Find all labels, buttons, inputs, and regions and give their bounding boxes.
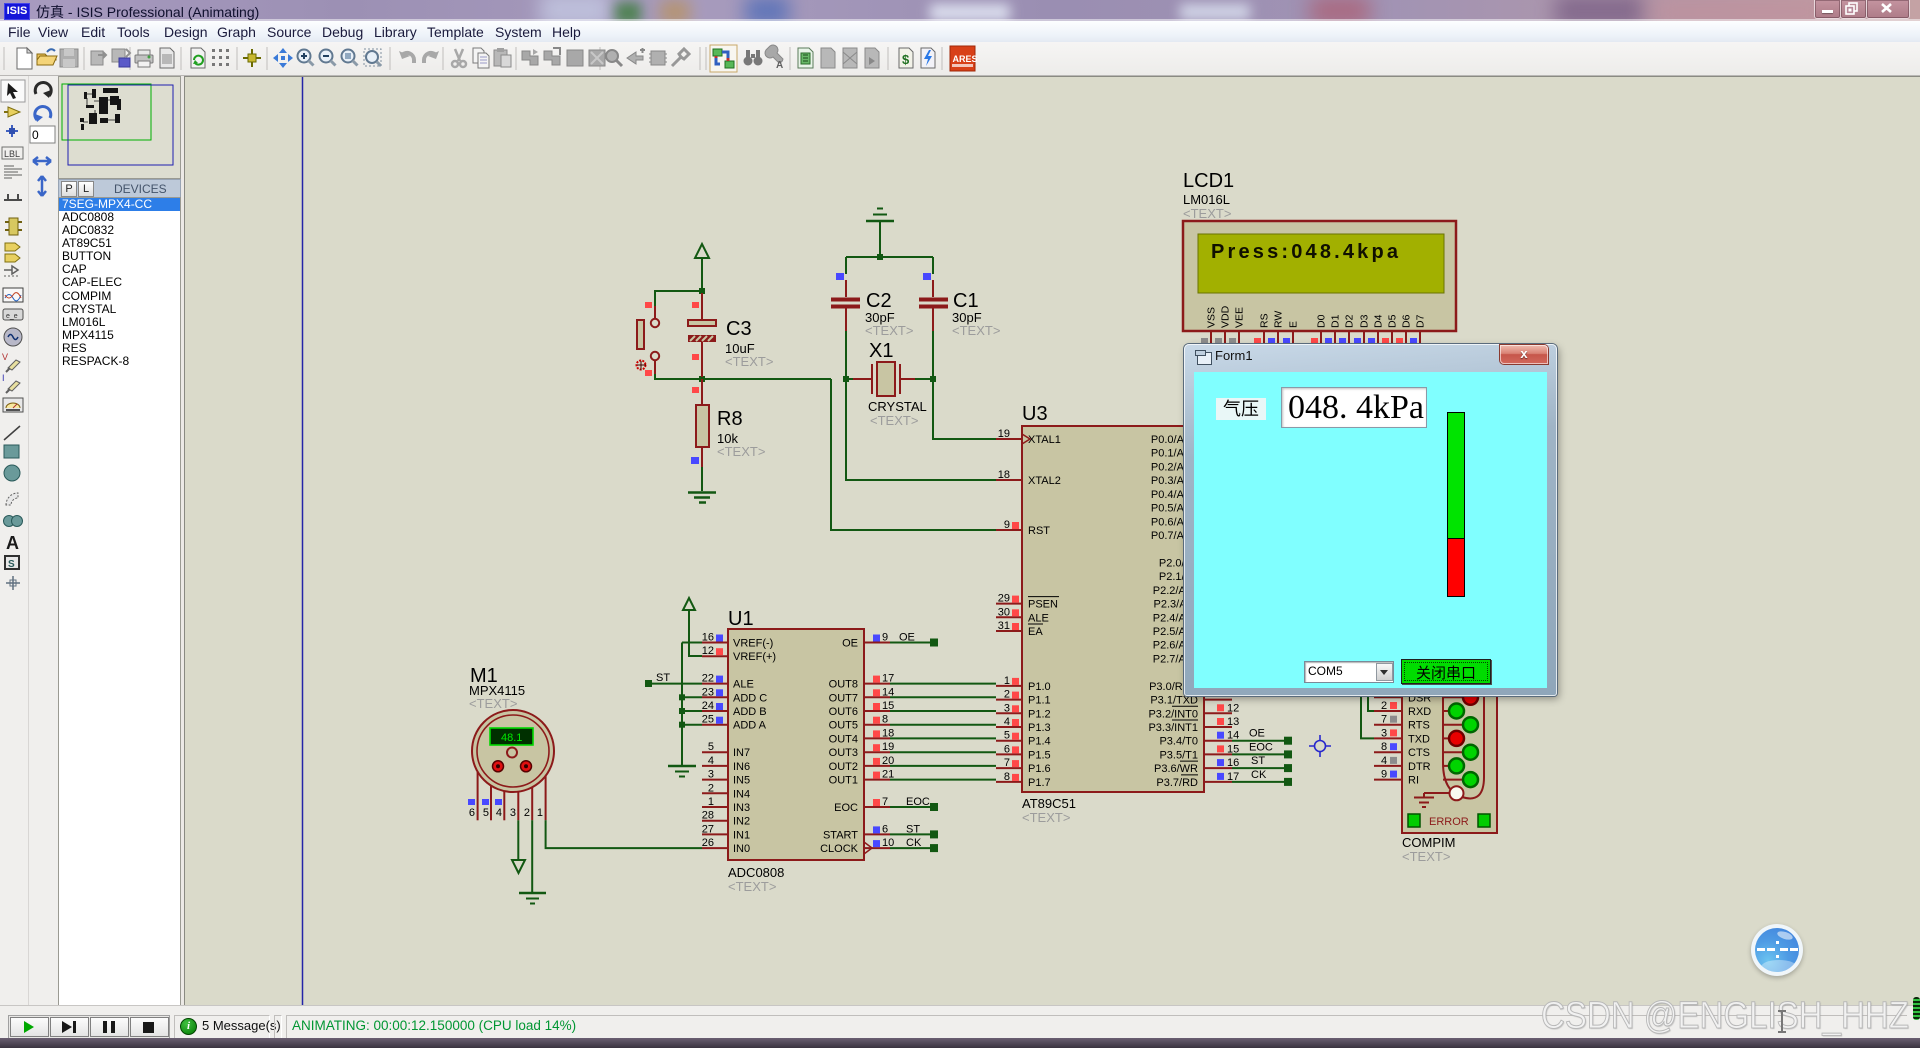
svg-text:TXD: TXD [1408, 733, 1430, 745]
zoom out [320, 50, 336, 66]
wire crystal top rail [846, 256, 933, 258]
node junction ADD A [679, 722, 685, 728]
svg-text:4: 4 [708, 755, 714, 767]
svg-text:A: A [776, 60, 783, 71]
wire ADD C [682, 696, 702, 698]
node junction top rail [877, 254, 883, 260]
script lines [4, 166, 22, 178]
wire M1 pin2 to ground [531, 820, 533, 892]
wire XTAL1 net [933, 379, 996, 439]
svg-text:START: START [823, 829, 858, 841]
wire junction to button [655, 291, 702, 306]
svg-text:9: 9 [1004, 519, 1010, 531]
svg-text:12: 12 [1227, 702, 1239, 714]
svg-text:1: 1 [537, 807, 543, 819]
op IC U1 ADC0808 [702, 608, 895, 894]
wire COMPIM RXD net [1368, 689, 1374, 711]
svg-text:V: V [2, 352, 8, 362]
left stubs [702, 643, 728, 849]
svg-text:ST: ST [1251, 755, 1265, 767]
left stubs [996, 439, 1022, 782]
svg-text:E: E [1288, 321, 1300, 328]
wire button bottom to C3 bottom junction [655, 374, 831, 379]
circle [4, 465, 20, 481]
gauge bar [1447, 412, 1465, 597]
svg-text:IN2: IN2 [733, 816, 750, 828]
svg-text:LBL: LBL [4, 149, 20, 159]
export [112, 49, 130, 67]
svg-text:2: 2 [708, 782, 714, 794]
terminal arrow (down) [512, 860, 525, 873]
form icon [1197, 352, 1212, 365]
copy [473, 48, 489, 68]
svg-text:<TEXT>: <TEXT> [728, 879, 776, 894]
svg-text:IN3: IN3 [733, 802, 750, 814]
svg-text:27: 27 [702, 823, 714, 835]
LED stubs [1443, 697, 1462, 779]
svg-text:0: 0 [32, 128, 39, 142]
svg-text:LM016L: LM016L [1183, 192, 1230, 207]
svg-text:P3.2/INT0: P3.2/INT0 [1148, 708, 1198, 720]
svg-text:PSEN: PSEN [1028, 599, 1058, 611]
I-beam cursor [1781, 1011, 1783, 1032]
svg-text:<TEXT>: <TEXT> [1183, 206, 1231, 221]
sim buttons [8, 1015, 170, 1039]
svg-text:22: 22 [702, 673, 714, 685]
svg-text:P3.7/RD: P3.7/RD [1156, 777, 1198, 789]
tape [3, 309, 23, 320]
svg-text:IN4: IN4 [733, 788, 750, 800]
pick/edit grey [606, 50, 622, 66]
svg-text:12: 12 [702, 645, 714, 657]
svg-text:XTAL2: XTAL2 [1028, 475, 1061, 487]
svg-text:ALE: ALE [733, 679, 754, 691]
svg-text:Press:048.4kpa: Press:048.4kpa [1211, 241, 1399, 263]
ground (below R8) [688, 493, 716, 503]
svg-text:I: I [2, 373, 5, 383]
serial model COMPIM [1374, 651, 1497, 864]
svg-text:RI: RI [1408, 775, 1419, 787]
svg-text:P1.1: P1.1 [1028, 695, 1051, 707]
svg-text:4: 4 [1381, 755, 1387, 767]
svg-text:8: 8 [882, 714, 888, 726]
LEDs [1463, 690, 1478, 705]
clock notch [864, 842, 872, 854]
svg-text:RW: RW [1273, 311, 1285, 328]
svg-text:P1.2: P1.2 [1028, 708, 1051, 720]
svg-text:ST: ST [906, 823, 920, 835]
angle box [30, 126, 55, 143]
2D line [4, 426, 20, 440]
svg-text:ADD A: ADD A [733, 720, 767, 732]
svg-text:VREF(-): VREF(-) [733, 638, 773, 650]
svg-text:VREF(+): VREF(+) [733, 651, 776, 663]
svg-text:P1.7: P1.7 [1028, 777, 1051, 789]
mirror Y [38, 176, 46, 196]
BOM [899, 48, 913, 68]
svg-text:1: 1 [708, 796, 714, 808]
design explorer [798, 48, 813, 68]
svg-text:LCD1: LCD1 [1183, 170, 1234, 192]
svg-text:P1.5: P1.5 [1028, 749, 1051, 761]
redo [424, 51, 439, 63]
svg-text:25: 25 [702, 714, 714, 726]
wire VREF(-) to ground rail [682, 642, 702, 644]
instrument [3, 398, 23, 412]
svg-text:<TEXT>: <TEXT> [717, 444, 765, 459]
node junction ADD B [679, 708, 685, 714]
svg-text:7: 7 [1381, 714, 1387, 726]
svg-text:C3: C3 [726, 318, 752, 340]
svg-text:IN7: IN7 [733, 747, 750, 759]
svg-text:ADC0808: ADC0808 [728, 865, 784, 880]
svg-text:OE: OE [842, 638, 858, 650]
svg-text:D7: D7 [1415, 314, 1427, 328]
svg-text:30: 30 [998, 606, 1010, 618]
wire COMPIM TXD net [1361, 689, 1374, 738]
zoom in [298, 50, 314, 66]
cut [452, 49, 466, 67]
preview [160, 48, 174, 68]
svg-text:3: 3 [1004, 702, 1010, 714]
svg-text:RXD: RXD [1408, 706, 1431, 718]
wire ADD A [682, 724, 702, 726]
svg-text:2: 2 [524, 807, 530, 819]
svg-text:9: 9 [1381, 769, 1387, 781]
svg-text:S: S [8, 559, 15, 570]
node junction crystal right [930, 376, 936, 382]
cursor crosshair [1309, 735, 1331, 757]
marker [6, 576, 20, 590]
ground (U1 rail) [668, 766, 696, 777]
svg-text:19: 19 [998, 428, 1010, 440]
ISIS icon [4, 3, 30, 20]
svg-text:U1: U1 [728, 608, 754, 630]
right numbers + indicators [1217, 704, 1224, 711]
svg-text:5: 5 [1004, 730, 1010, 742]
svg-text:ADD B: ADD B [733, 706, 767, 718]
svg-text:CK: CK [906, 837, 922, 849]
svg-text:D6: D6 [1401, 314, 1413, 328]
svg-text:e_e: e_e [6, 313, 18, 320]
window buttons [1814, 0, 1841, 19]
LBL [2, 147, 23, 159]
sheet border [302, 77, 304, 1006]
svg-text:<TEXT>: <TEXT> [865, 323, 913, 338]
svg-text:D5: D5 [1387, 314, 1399, 328]
svg-text:A: A [6, 533, 19, 553]
wire ST terminal (U3 P3.6) [1232, 755, 1292, 772]
ground (inverted, crystal top) [866, 209, 894, 258]
svg-text:ARES: ARES [953, 54, 978, 64]
svg-text:D1: D1 [1330, 314, 1342, 328]
selection arrow (pressed) [1, 80, 25, 102]
svg-text:P1.6: P1.6 [1028, 763, 1051, 775]
svg-text:U3: U3 [1022, 403, 1048, 425]
svg-text:EOC: EOC [906, 796, 930, 808]
svg-text:13: 13 [1227, 716, 1239, 728]
svg-text:P3.5/T1: P3.5/T1 [1159, 749, 1198, 761]
power terminal (U1 VREF+) [683, 598, 702, 656]
ARES [950, 46, 978, 71]
2D closed path [4, 516, 15, 527]
svg-text:5: 5 [708, 741, 714, 753]
svg-text:RTS: RTS [1408, 720, 1430, 732]
气压 label [1216, 398, 1266, 420]
svg-text:4: 4 [496, 807, 502, 819]
svg-text:16: 16 [702, 632, 714, 644]
svg-text:29: 29 [998, 593, 1010, 605]
pressure sensor M1 MPX4115 [468, 665, 554, 820]
right stubs below form [1204, 700, 1232, 782]
rotate CCW [35, 106, 51, 120]
capacitor C1 30pF [919, 257, 1000, 379]
svg-text:28: 28 [702, 810, 714, 822]
svg-text:P3.6/WR: P3.6/WR [1154, 763, 1198, 775]
svg-text:23: 23 [702, 686, 714, 698]
pin names (rotated) [1206, 305, 1427, 328]
wire ADD B [682, 710, 702, 712]
svg-text:OUT2: OUT2 [829, 761, 858, 773]
wire ADD ground rail [681, 643, 683, 766]
svg-text:<TEXT>: <TEXT> [952, 323, 1000, 338]
svg-text:OUT4: OUT4 [829, 733, 858, 745]
wrench A [765, 45, 783, 71]
svg-text:1: 1 [1004, 675, 1010, 687]
symbol [5, 556, 19, 569]
client area [1194, 372, 1547, 688]
zoom area [364, 49, 381, 66]
svg-text:24: 24 [702, 700, 714, 712]
svg-text:2: 2 [1381, 700, 1387, 712]
rotate CW [35, 82, 51, 96]
bus [4, 194, 22, 200]
wire M1 pin1 to IN0 [546, 820, 702, 848]
microcontroller U3 AT89C51 [996, 403, 1239, 825]
component arrow yellow [8, 107, 20, 117]
svg-text:7: 7 [882, 796, 888, 808]
svg-text:IN5: IN5 [733, 775, 750, 787]
binoculars [744, 50, 763, 66]
new [17, 48, 32, 69]
undo [399, 51, 414, 63]
svg-text:RS: RS [1259, 313, 1271, 328]
save (grey) [60, 49, 78, 67]
wire OE terminal (U1) [890, 632, 938, 647]
import [91, 51, 106, 65]
svg-text:31: 31 [998, 620, 1010, 632]
COM5 combo [1304, 661, 1394, 683]
svg-text:CRYSTAL: CRYSTAL [868, 399, 927, 414]
wire EOC terminal (U3 P3.5) [1232, 741, 1292, 758]
svg-text:6: 6 [469, 807, 475, 819]
svg-text:48.1: 48.1 [501, 732, 522, 744]
close button [1500, 345, 1548, 364]
svg-text:<TEXT>: <TEXT> [870, 413, 918, 428]
origin [243, 49, 261, 67]
left stubs [1374, 697, 1402, 779]
svg-text:P3.3/INT1: P3.3/INT1 [1148, 722, 1198, 734]
svg-text:EOC: EOC [1249, 741, 1273, 753]
capacitor C3 (electrolytic 10uF) [688, 293, 773, 377]
ground (COMPIM internal) [1414, 793, 1449, 807]
arc [6, 493, 18, 505]
wire OE terminal (U3 P3.4) [1232, 728, 1292, 745]
right stubs [864, 643, 890, 849]
svg-text:D3: D3 [1359, 314, 1371, 328]
pressure textbox [1281, 387, 1427, 428]
node ST terminal [645, 672, 702, 687]
wire M1 pin3 to arrow terminal [517, 820, 519, 860]
svg-text:ADD C: ADD C [733, 692, 767, 704]
new/del/goto sheet [821, 48, 835, 68]
wire CK terminal (U1 CLOCK) [890, 837, 938, 852]
svg-text:XTAL1: XTAL1 [1028, 434, 1061, 446]
paste [494, 48, 511, 67]
generator [4, 328, 22, 346]
svg-text:CLOCK: CLOCK [820, 843, 859, 855]
svg-text:3: 3 [510, 807, 516, 819]
power terminal VCC (reset circuit) [695, 244, 709, 291]
junction [6, 125, 18, 137]
svg-text:3: 3 [708, 769, 714, 781]
svg-text:D2: D2 [1344, 314, 1356, 328]
svg-text:ALE: ALE [1028, 612, 1049, 624]
node junction ADD C [679, 694, 685, 700]
node junction C3 bottom [699, 376, 705, 382]
svg-text:7: 7 [1004, 757, 1010, 769]
pan [273, 48, 293, 68]
svg-text:AT89C51: AT89C51 [1022, 796, 1076, 811]
wire XTAL2 net [846, 379, 996, 480]
关闭串口 button [1401, 659, 1491, 684]
svg-text:OUT6: OUT6 [829, 706, 858, 718]
svg-text:VEE: VEE [1234, 307, 1246, 328]
svg-text:8: 8 [1381, 741, 1387, 753]
wire ST terminal (U1 START) [890, 823, 938, 838]
print [135, 50, 153, 67]
svg-text:<TEXT>: <TEXT> [1022, 810, 1070, 825]
svg-text:OUT8: OUT8 [829, 679, 858, 691]
svg-text:P1.0: P1.0 [1028, 681, 1051, 693]
svg-text:ST: ST [656, 672, 670, 684]
pin indicators [1201, 338, 1208, 345]
svg-text:OUT7: OUT7 [829, 692, 858, 704]
svg-text:3: 3 [1381, 727, 1387, 739]
svg-text:P3.1/TXD: P3.1/TXD [1150, 695, 1198, 707]
animating cell [286, 1015, 1907, 1039]
svg-text:P3.4/T0: P3.4/T0 [1159, 736, 1198, 748]
wire RST net [831, 379, 996, 530]
box [4, 445, 19, 458]
button (reset pushbutton) [637, 302, 660, 376]
LCD1 LM016L [1183, 170, 1456, 347]
svg-text:RST: RST [1028, 525, 1050, 537]
svg-text:6: 6 [1004, 743, 1010, 755]
message cell [174, 1015, 270, 1039]
svg-text:EOC: EOC [834, 802, 858, 814]
status squares [1408, 814, 1420, 827]
svg-text:X1: X1 [869, 340, 893, 362]
refresh [191, 48, 205, 68]
svg-text:IN0: IN0 [733, 843, 750, 855]
svg-text:D0: D0 [1316, 314, 1328, 328]
wire CK terminal (U3 P3.7) [1232, 769, 1292, 786]
svg-text:<TEXT>: <TEXT> [725, 354, 773, 369]
pin stubs [1211, 331, 1420, 347]
DB9 outline [1443, 651, 1484, 798]
svg-text:EA: EA [1028, 626, 1043, 638]
grid [212, 49, 229, 66]
svg-text:DTR: DTR [1408, 761, 1431, 773]
svg-text:2: 2 [1004, 689, 1010, 701]
svg-text:CK: CK [1251, 769, 1267, 781]
svg-text:OE: OE [899, 632, 915, 644]
svg-text:D4: D4 [1373, 314, 1385, 328]
svg-text:<TEXT>: <TEXT> [1402, 849, 1450, 864]
svg-text:6: 6 [882, 823, 888, 835]
svg-text:8: 8 [1004, 771, 1010, 783]
node junction reset top [699, 288, 705, 294]
mirror X [33, 157, 51, 165]
block copy/move/rot/del [522, 49, 538, 65]
svg-text:26: 26 [702, 837, 714, 849]
svg-text:IN1: IN1 [733, 829, 750, 841]
svg-text:OE: OE [1249, 728, 1265, 740]
svg-text:COMPIM: COMPIM [1402, 835, 1455, 850]
svg-text:R8: R8 [717, 408, 743, 430]
svg-text:VSS: VSS [1206, 307, 1218, 328]
svg-text:5: 5 [483, 807, 489, 819]
svg-text:OUT1: OUT1 [829, 775, 858, 787]
device pin [4, 266, 18, 274]
autoroute (active colored) [710, 45, 737, 72]
svg-text:<TEXT>: <TEXT> [469, 696, 517, 711]
resistor R8 10k [691, 379, 765, 491]
terminal [5, 243, 20, 251]
wire EOC terminal (U1) [890, 796, 938, 811]
wire OUT8..OUT1 bus to U3 P1 [890, 684, 996, 780]
capacitor C2 30pF [831, 257, 913, 379]
graph [3, 288, 23, 302]
svg-text:4: 4 [1004, 716, 1010, 728]
green striped marker right edge [1913, 997, 1920, 1020]
svg-text:OUT5: OUT5 [829, 720, 858, 732]
node junction crystal left [843, 376, 849, 382]
svg-text:9: 9 [882, 632, 888, 644]
svg-text:IN6: IN6 [733, 761, 750, 773]
crystal X1 [846, 340, 933, 428]
ERC [921, 48, 935, 68]
svg-text:ERROR: ERROR [1429, 816, 1469, 828]
svg-text:P1.4: P1.4 [1028, 736, 1051, 748]
subcircuit [9, 218, 18, 235]
svg-text:P1.3: P1.3 [1028, 722, 1051, 734]
open [37, 49, 57, 65]
svg-text:CTS: CTS [1408, 747, 1430, 759]
svg-text:C2: C2 [866, 290, 892, 312]
left indicators [716, 635, 723, 642]
svg-text:18: 18 [998, 469, 1010, 481]
svg-text:OUT3: OUT3 [829, 747, 858, 759]
right pin numbers + indicators [873, 635, 880, 642]
svg-text:VDD: VDD [1220, 305, 1232, 328]
ground (M1 pin2) [519, 893, 546, 904]
svg-text:C1: C1 [953, 290, 979, 312]
zoom 100 [342, 50, 358, 66]
svg-text:$: $ [902, 52, 910, 67]
